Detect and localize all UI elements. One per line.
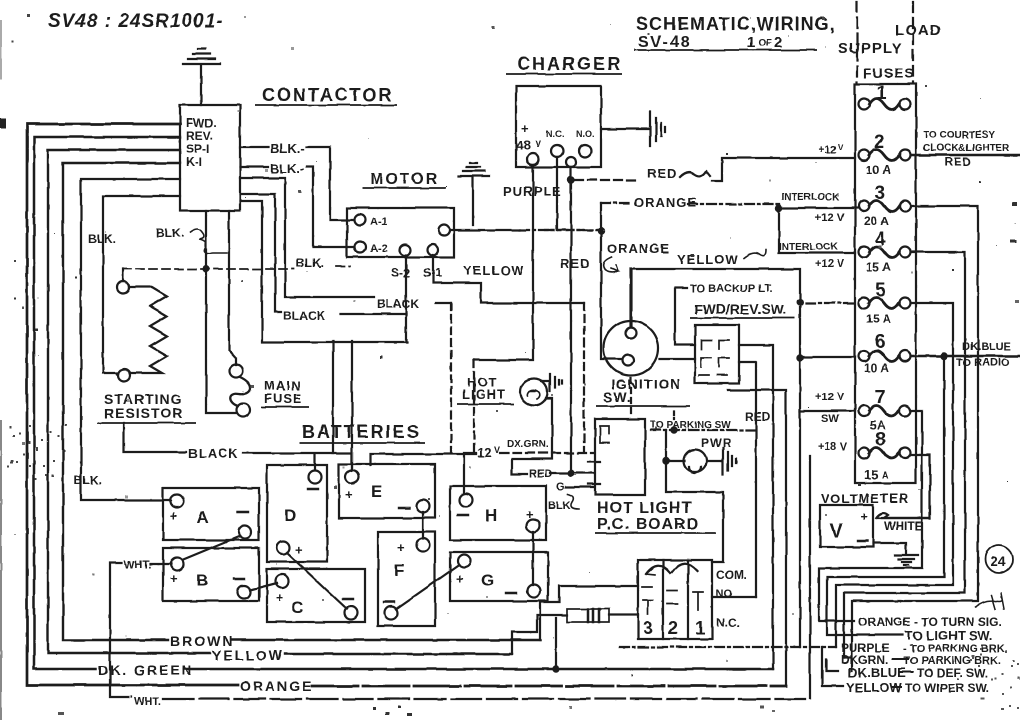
- svg-text:CONTACTOR: CONTACTOR: [262, 85, 393, 105]
- svg-text:BATTERIES: BATTERIES: [302, 422, 421, 442]
- svg-text:+: +: [295, 542, 303, 557]
- svg-text:K-I: K-I: [186, 155, 202, 169]
- svg-text:A-2: A-2: [370, 243, 388, 255]
- svg-text:DX.GRN.: DX.GRN.: [507, 439, 549, 450]
- svg-text:+: +: [397, 540, 405, 555]
- svg-text:+: +: [170, 508, 178, 523]
- svg-text:N.O.: N.O.: [576, 129, 595, 139]
- svg-text:+: +: [276, 590, 284, 605]
- svg-text:P.C. BOARD: P.C. BOARD: [597, 516, 699, 533]
- svg-text:V: V: [494, 445, 500, 455]
- svg-text:+12 V: +12 V: [815, 212, 845, 224]
- svg-text:OF: OF: [758, 38, 772, 49]
- svg-text:FUSES: FUSES: [863, 65, 915, 81]
- svg-text:TO WIPER SW.: TO WIPER SW.: [905, 681, 989, 695]
- svg-text:LIGHT: LIGHT: [462, 387, 506, 402]
- svg-text:CHARGER: CHARGER: [517, 54, 622, 74]
- svg-text:6: 6: [875, 332, 886, 353]
- svg-text:YELLOW: YELLOW: [677, 252, 739, 267]
- svg-text:DK.BLUE: DK.BLUE: [848, 665, 906, 680]
- svg-text:48: 48: [516, 138, 530, 153]
- svg-text:RED: RED: [529, 468, 552, 480]
- svg-text:5: 5: [875, 280, 886, 301]
- svg-text:15 A: 15 A: [866, 312, 891, 326]
- svg-text:TO COURTESY: TO COURTESY: [923, 130, 995, 141]
- svg-text:S-1: S-1: [423, 266, 442, 280]
- svg-text:WHITE: WHITE: [884, 519, 923, 533]
- svg-text:VOLTMETER: VOLTMETER: [821, 491, 909, 506]
- svg-text:10 A: 10 A: [866, 163, 891, 177]
- svg-text:15 A: 15 A: [866, 260, 891, 274]
- svg-text:A: A: [882, 470, 889, 480]
- svg-text:N.C.: N.C.: [546, 129, 564, 139]
- svg-text:WHT.: WHT.: [134, 696, 161, 708]
- svg-text:D: D: [284, 506, 296, 525]
- svg-text:SV-48: SV-48: [638, 34, 692, 51]
- svg-text:+: +: [345, 487, 353, 502]
- svg-text:+12 V: +12 V: [815, 391, 845, 403]
- svg-text:SW.: SW.: [603, 389, 632, 405]
- svg-text:COM.: COM.: [716, 568, 747, 582]
- svg-text:7: 7: [875, 387, 886, 408]
- svg-text:ORANGE: ORANGE: [240, 678, 313, 694]
- svg-text:N.C.: N.C.: [716, 616, 740, 630]
- svg-text:PWR: PWR: [701, 436, 732, 450]
- svg-text:15: 15: [864, 467, 878, 482]
- svg-text:V: V: [838, 143, 844, 152]
- svg-text:3: 3: [875, 183, 886, 204]
- svg-text:DK.BLUE: DK.BLUE: [962, 341, 1011, 353]
- svg-text:ORANGE: ORANGE: [607, 241, 670, 256]
- svg-text:MOTOR: MOTOR: [370, 171, 439, 188]
- svg-text:+: +: [170, 571, 178, 586]
- svg-text:BLK: BLK: [548, 500, 571, 512]
- svg-text:24: 24: [990, 553, 1006, 569]
- svg-text:INTERLOCK: INTERLOCK: [779, 242, 838, 253]
- svg-text:A: A: [196, 508, 208, 527]
- svg-text:F: F: [394, 561, 404, 580]
- svg-text:10 A: 10 A: [864, 361, 889, 375]
- svg-text:YELLOW: YELLOW: [212, 647, 284, 663]
- svg-text:SUPPLY: SUPPLY: [838, 40, 903, 57]
- svg-text:RED: RED: [745, 410, 771, 424]
- svg-text:RED: RED: [560, 256, 590, 271]
- svg-text:RESISTOR: RESISTOR: [104, 405, 183, 421]
- svg-text:FUSE: FUSE: [264, 391, 303, 406]
- svg-text:FWD.: FWD.: [186, 116, 217, 130]
- svg-text:SV48 : 24SR1001-: SV48 : 24SR1001-: [48, 11, 224, 32]
- svg-text:WHT.: WHT.: [124, 559, 151, 571]
- svg-text:BLK.-: BLK.-: [270, 161, 305, 176]
- svg-text:FWD/REV.SW.: FWD/REV.SW.: [694, 301, 787, 317]
- svg-text:TO LIGHT SW.: TO LIGHT SW.: [905, 628, 993, 643]
- svg-text:BLACK: BLACK: [283, 309, 325, 323]
- svg-text:B: B: [196, 571, 208, 590]
- svg-text:2: 2: [874, 132, 885, 153]
- svg-text:BLK.: BLK.: [74, 473, 102, 487]
- svg-text:+12: +12: [818, 144, 837, 156]
- svg-text:12: 12: [477, 445, 491, 460]
- svg-text:PURPLE: PURPLE: [503, 184, 562, 199]
- svg-text:CLOCK&LIGHTER: CLOCK&LIGHTER: [923, 143, 1010, 154]
- svg-text:SP-I: SP-I: [186, 142, 209, 156]
- svg-text:YELLOW: YELLOW: [846, 680, 902, 695]
- svg-text:2: 2: [774, 34, 782, 51]
- svg-text:2: 2: [668, 618, 678, 638]
- svg-text:RED: RED: [647, 166, 677, 181]
- svg-text:YELLOW: YELLOW: [463, 263, 525, 278]
- svg-text:BLACK: BLACK: [188, 446, 239, 461]
- svg-text:NO: NO: [716, 588, 733, 600]
- svg-text:G: G: [481, 571, 494, 590]
- svg-text:V: V: [830, 521, 843, 542]
- svg-text:3: 3: [643, 618, 653, 638]
- svg-text:+: +: [526, 507, 534, 522]
- svg-text:BLACK: BLACK: [377, 297, 419, 311]
- svg-text:LOAD: LOAD: [895, 22, 942, 39]
- svg-text:S-2: S-2: [391, 266, 410, 280]
- svg-text:E: E: [371, 482, 382, 501]
- svg-text:+18 V: +18 V: [818, 441, 848, 453]
- svg-text:TO DEF. SW.: TO DEF. SW.: [917, 666, 988, 680]
- svg-text:BLK.: BLK.: [88, 232, 116, 246]
- svg-text:REV.: REV.: [186, 129, 213, 143]
- svg-text:SW: SW: [821, 413, 839, 425]
- svg-text:8: 8: [875, 429, 886, 450]
- svg-text:SCHEMATIC,WIRING,: SCHEMATIC,WIRING,: [636, 14, 836, 34]
- svg-text:HOT LIGHT: HOT LIGHT: [597, 500, 692, 517]
- svg-text:INTERLOCK: INTERLOCK: [781, 192, 840, 203]
- svg-text:TO PARKING SW: TO PARKING SW: [650, 420, 731, 431]
- svg-text:ORANGE: ORANGE: [634, 195, 697, 210]
- svg-text:TO RADIO: TO RADIO: [956, 357, 1010, 369]
- svg-text:+: +: [521, 121, 529, 136]
- svg-text:1: 1: [747, 34, 755, 51]
- svg-text:RED: RED: [944, 155, 972, 169]
- svg-text:+: +: [860, 509, 868, 524]
- svg-text:+12 V: +12 V: [815, 258, 845, 270]
- svg-text:20 A: 20 A: [864, 214, 889, 228]
- svg-text:- TO PARKING BRK.: - TO PARKING BRK.: [903, 643, 1008, 655]
- svg-text:1: 1: [695, 618, 705, 638]
- svg-text:G: G: [556, 481, 565, 493]
- svg-text:1: 1: [876, 83, 887, 104]
- svg-text:ORANGE - TO TURN SIG.: ORANGE - TO TURN SIG.: [858, 615, 1002, 629]
- svg-text:+: +: [456, 571, 464, 586]
- svg-text:TO BACKUP LT.: TO BACKUP LT.: [690, 283, 773, 295]
- svg-text:DK. GREEN: DK. GREEN: [98, 662, 194, 678]
- svg-text:BLK.-: BLK.-: [270, 141, 305, 156]
- svg-text:A-1: A-1: [370, 216, 388, 228]
- svg-text:H: H: [485, 506, 497, 525]
- svg-text:C: C: [291, 598, 303, 617]
- svg-text:V: V: [535, 139, 541, 149]
- svg-text:BLK.: BLK.: [156, 226, 184, 240]
